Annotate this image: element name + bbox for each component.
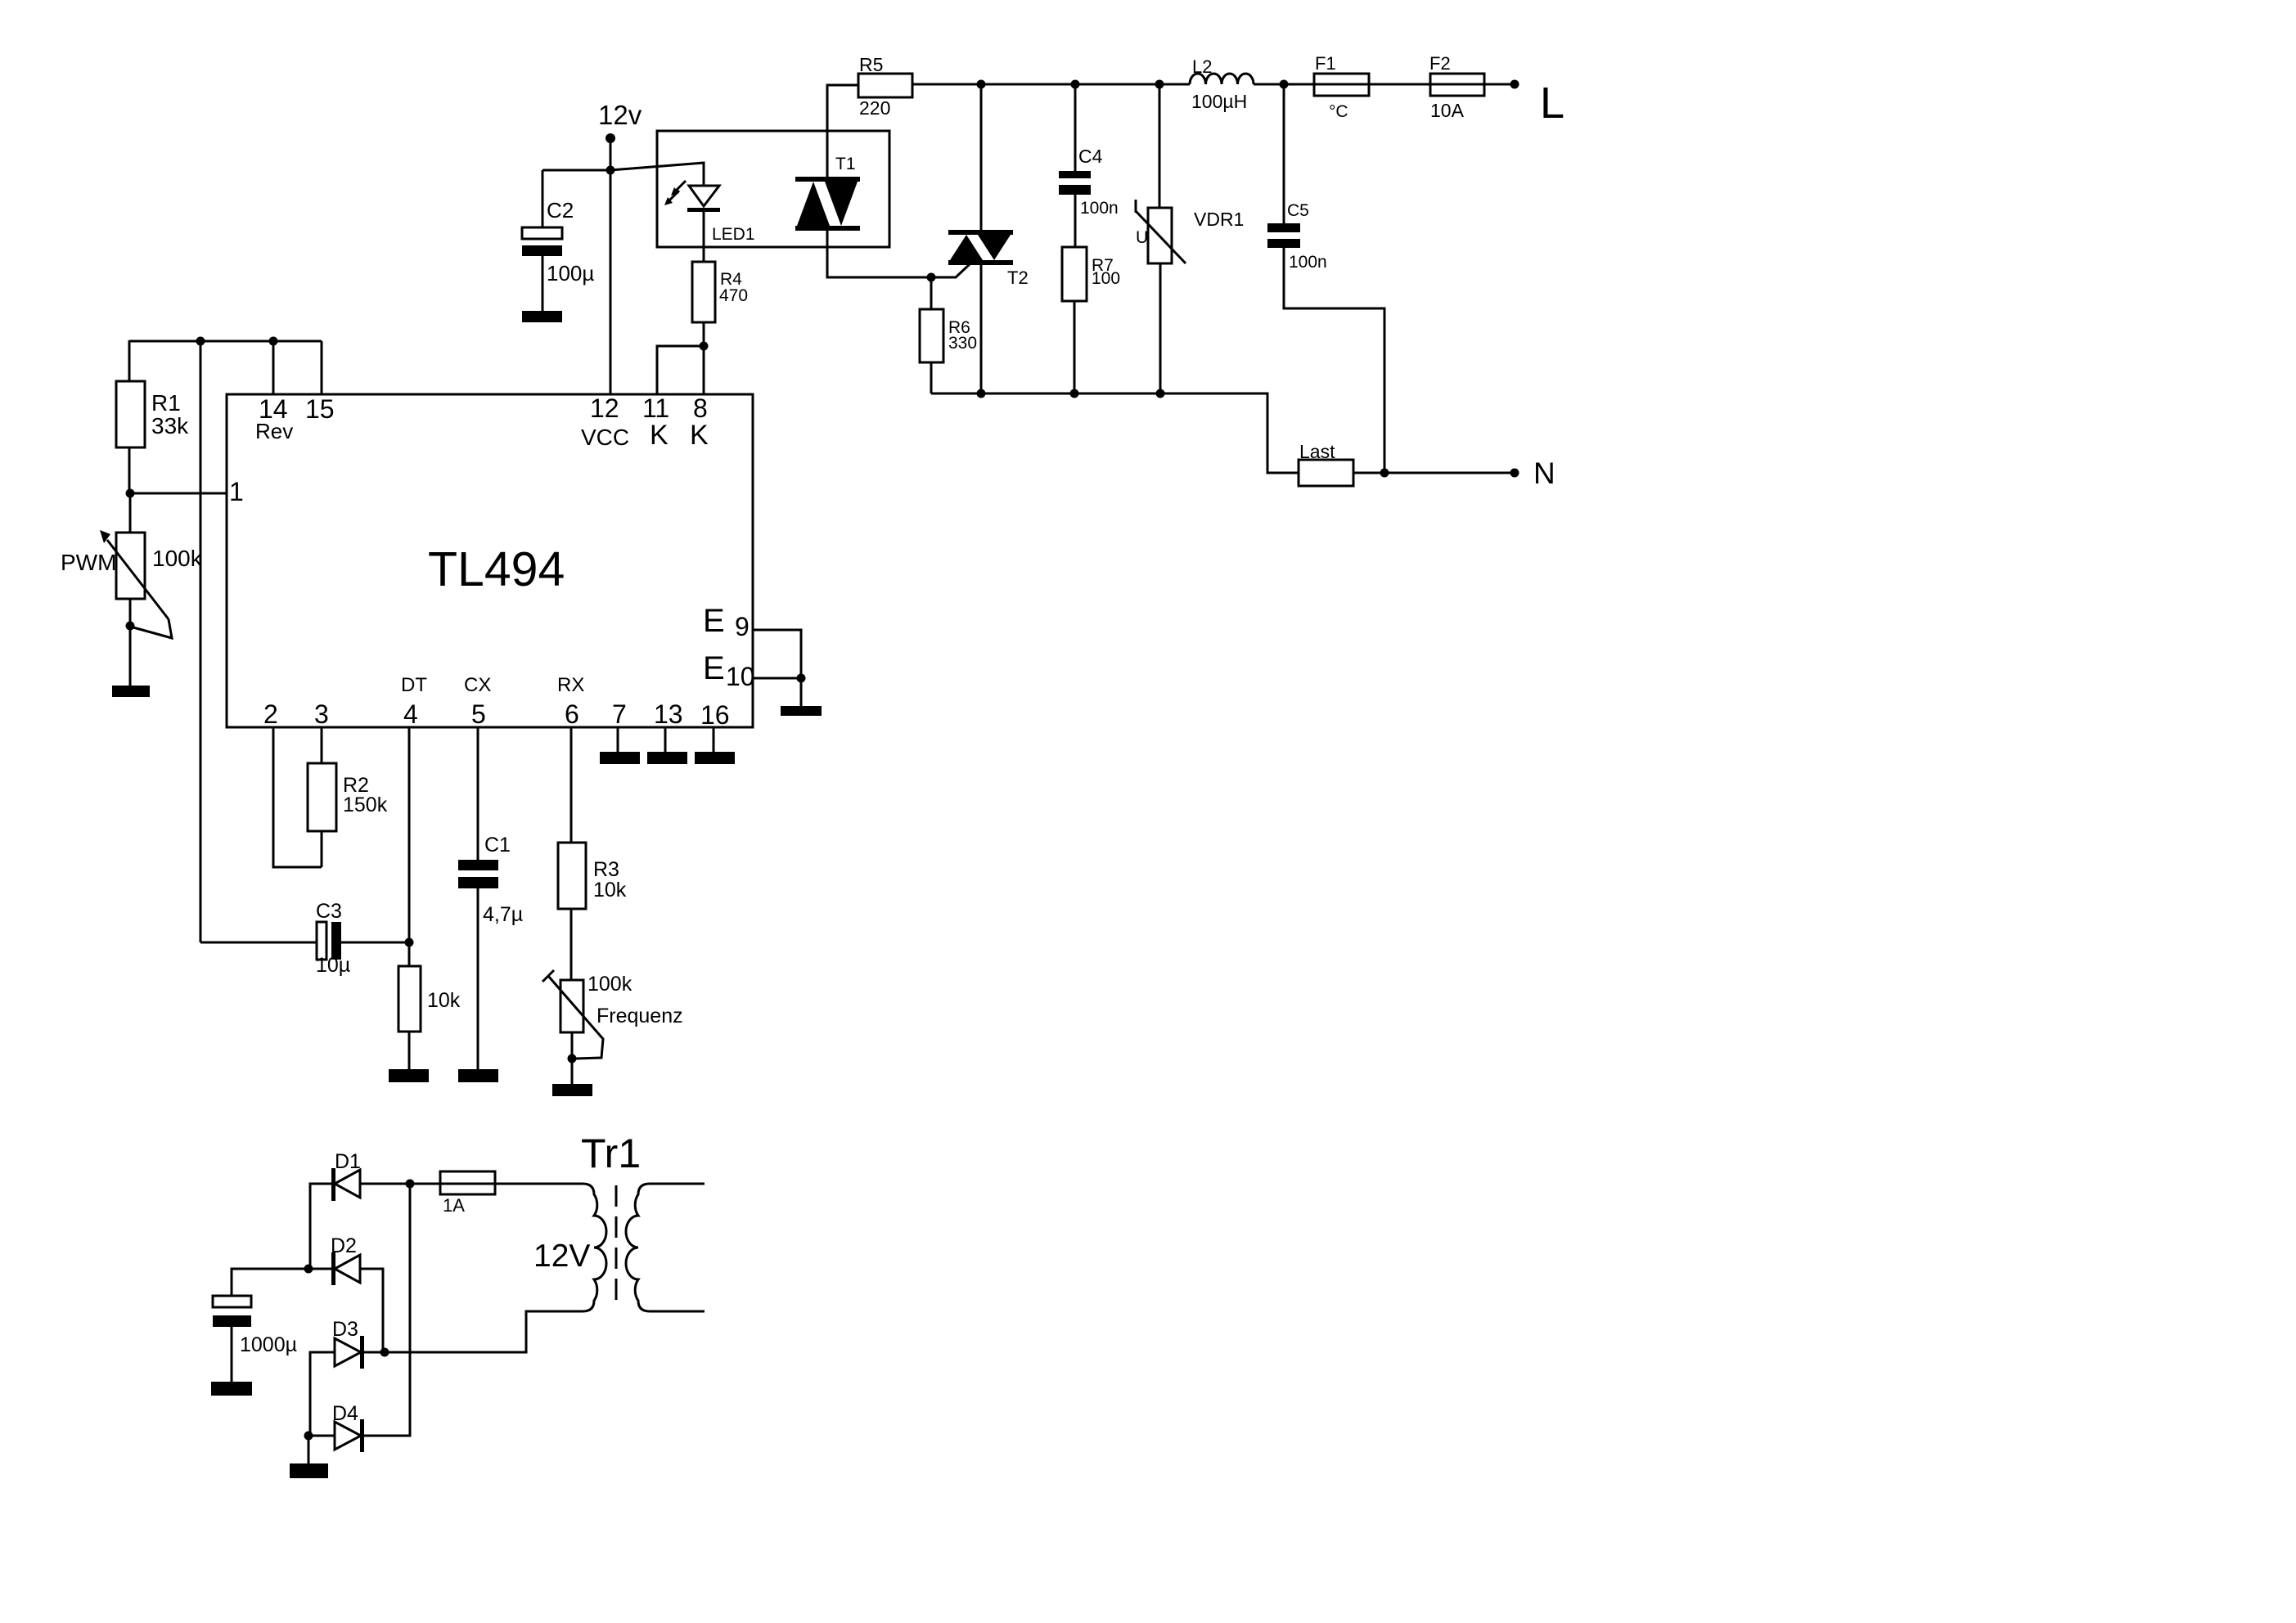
node pin4/C3 [405, 938, 414, 947]
svg-text:R3: R3 [593, 858, 619, 881]
svg-text:11: 11 [642, 393, 669, 423]
ground (emitters) [781, 706, 822, 716]
wire T2 bottom to rail [980, 265, 983, 393]
node T1/T2 gate/R6 [927, 273, 936, 282]
svg-text:C5: C5 [1287, 201, 1309, 220]
svg-text:10k: 10k [593, 879, 627, 901]
wire LED1 cathode to R4 [703, 212, 705, 262]
diode D4 [335, 1422, 361, 1450]
wire VDR1 bottom [1159, 263, 1162, 393]
wire F1 to F2 [1369, 83, 1430, 86]
wire pin 9 [753, 630, 801, 707]
wire Last to node [1353, 472, 1384, 474]
wire pot bottom to node [571, 1032, 574, 1059]
node rail/VDR1 bottom [1156, 389, 1165, 398]
svg-text:D4: D4 [332, 1402, 358, 1425]
wire R7 bottom [1074, 301, 1076, 393]
svg-text:220: 220 [859, 97, 890, 119]
capacitor C3 10u [317, 922, 326, 960]
svg-text:C2: C2 [547, 198, 574, 223]
node D4 anode [304, 1432, 313, 1441]
ground (PWM pot) [112, 686, 150, 697]
svg-text:E: E [703, 650, 725, 686]
wire top-left rail (node to pins 14/15) [129, 340, 322, 343]
wire D3 left down to D4 node [310, 1352, 335, 1436]
node pins 9/10 [797, 674, 806, 683]
svg-text:Frequenz: Frequenz [597, 1005, 683, 1027]
svg-text:VCC: VCC [581, 425, 629, 450]
svg-text:100µH: 100µH [1191, 91, 1247, 112]
svg-text:D2: D2 [331, 1234, 357, 1257]
wire pin 13 stub [664, 727, 667, 752]
node rail/VDR1 [1155, 80, 1164, 89]
ground (pin 4) [389, 1069, 429, 1082]
wire C5 bottom to N node [1284, 248, 1384, 473]
svg-text:10k: 10k [427, 989, 461, 1012]
wire 10k to ground [408, 1032, 411, 1071]
wire long vertical to C3 [200, 341, 202, 942]
svg-text:T2: T2 [1007, 268, 1029, 288]
wire C3 left [200, 942, 317, 944]
wire R1 bottom to node [128, 447, 131, 493]
wire C5 top [1283, 84, 1285, 223]
triac T2 [948, 230, 1013, 235]
diode D3 [335, 1338, 361, 1366]
capacitor C1 4,7u [458, 860, 498, 870]
wire bottom snubber rail [931, 393, 1299, 473]
svg-text:150k: 150k [343, 794, 388, 816]
LED1 light arrow 1 [675, 181, 686, 191]
capacitor C2 plate positive [522, 227, 562, 239]
wire C4 to R7 [1074, 195, 1077, 247]
wire D1 right to fuse node [360, 1183, 440, 1185]
wire top rail R5 to L2 [912, 83, 1190, 86]
svg-text:R1: R1 [151, 390, 181, 416]
svg-text:F2: F2 [1429, 53, 1451, 74]
node 12v branch [606, 166, 615, 175]
svg-text:VDR1: VDR1 [1194, 209, 1244, 230]
wire F2 to terminal L [1484, 83, 1515, 86]
capacitor C2 top wire [542, 170, 544, 227]
wire pin 5 to C1 [477, 727, 479, 860]
svg-text:100: 100 [1092, 269, 1120, 288]
resistor R2 150k [308, 763, 336, 831]
wire C2 to ground [542, 256, 544, 312]
svg-text:L2: L2 [1192, 56, 1212, 77]
svg-text:F1: F1 [1315, 53, 1336, 74]
node rail/T2 bottom [977, 389, 986, 398]
potentiometer PWM wiper arrow [107, 540, 169, 619]
wire pin 4 down [408, 727, 411, 966]
svg-text:Rev: Rev [255, 419, 293, 443]
wire pin 16 stub [713, 727, 715, 752]
svg-text:1A: 1A [443, 1195, 465, 1216]
wire branch to LED1 anode (slanted) [610, 163, 704, 186]
wire pin 15 [321, 341, 323, 394]
wire C3 right to pin4 node [341, 942, 409, 944]
svg-text:R5: R5 [859, 54, 883, 75]
resistor R4 470 [692, 262, 715, 322]
node rail/C4 [1071, 80, 1080, 89]
wire node to R6 [930, 277, 933, 309]
svg-text:1: 1 [229, 477, 244, 506]
resistor Last (load) [1299, 460, 1353, 486]
svg-text:15: 15 [305, 394, 335, 424]
svg-text:C1: C1 [484, 834, 511, 856]
capacitor C5 100n [1267, 223, 1300, 232]
svg-text:1000µ: 1000µ [240, 1333, 297, 1356]
wire node to PWM pot top [129, 493, 132, 533]
svg-text:RX: RX [557, 674, 584, 696]
svg-text:100n: 100n [1289, 253, 1327, 272]
wire node to D2 [308, 1268, 331, 1270]
wire Tr1 secondary bottom [650, 1311, 705, 1313]
node rail/T2 [977, 80, 986, 89]
node rail/R7 bottom [1070, 389, 1079, 398]
resistor R1 [116, 381, 145, 447]
diode D2 [331, 1252, 335, 1285]
varistor VDR1 [1148, 208, 1172, 263]
ground (D4) [290, 1463, 328, 1478]
wire R1 top [128, 340, 131, 381]
wire pin 10 [753, 677, 801, 680]
node pot bottom/wiper [126, 622, 135, 631]
svg-text:470: 470 [719, 286, 748, 305]
wire pin 2 loop [273, 727, 322, 867]
wire T2 gate [931, 264, 970, 277]
wire pin 6 to R3 [570, 727, 573, 843]
wire R3 to pot [570, 909, 573, 980]
potentiometer Frequenz 100k body [560, 980, 583, 1032]
svg-text:C3: C3 [316, 900, 342, 923]
fuse F2 10A [1430, 74, 1484, 96]
svg-text:100k: 100k [152, 546, 203, 571]
svg-text:T1: T1 [835, 155, 856, 173]
node freq pot [568, 1054, 577, 1063]
wire C4 top [1074, 84, 1077, 171]
wire pin 1 [130, 492, 227, 495]
svg-text:100k: 100k [588, 973, 633, 996]
svg-text:C4: C4 [1078, 146, 1103, 167]
wire L2 to F1 [1254, 83, 1314, 86]
resistor R5 220 [858, 74, 912, 97]
wire pin 14 [272, 341, 275, 394]
node terminal L [1510, 80, 1519, 89]
node rail/C5 [1280, 80, 1289, 89]
svg-text:10A: 10A [1430, 100, 1465, 121]
ground (pin 7) [600, 752, 640, 764]
svg-text:16: 16 [700, 700, 730, 730]
node 12v terminal [606, 133, 615, 143]
wire node to terminal N [1384, 472, 1515, 474]
wire T1 top from R5 [827, 85, 858, 177]
triac T1 [795, 177, 860, 182]
svg-text:Last: Last [1299, 441, 1335, 462]
svg-text:4,7µ: 4,7µ [483, 903, 523, 926]
fuse 1A [440, 1171, 495, 1194]
svg-text:3: 3 [314, 699, 329, 729]
wire jog to pin 11 [657, 346, 704, 394]
node terminal N [1510, 469, 1519, 478]
wire VDR1 top [1159, 84, 1161, 208]
svg-text:100µ: 100µ [547, 261, 594, 285]
wire node to ground [129, 626, 132, 687]
svg-text:6: 6 [565, 699, 579, 729]
svg-text:E: E [703, 603, 725, 639]
svg-text:330: 330 [948, 334, 977, 353]
wire node to ground [571, 1059, 574, 1086]
svg-text:12v: 12v [598, 100, 642, 130]
svg-text:D1: D1 [335, 1150, 361, 1173]
wire pin 3 to R2 [321, 727, 323, 763]
node D2 anode [304, 1265, 313, 1274]
LED1 light arrow 2 [669, 191, 679, 201]
capacitor C2 plate negative [522, 245, 562, 256]
ground (frequenz) [552, 1084, 592, 1096]
svg-text:N: N [1533, 456, 1555, 490]
wire R4 to pin 8 [703, 322, 705, 394]
capacitor 1000u [213, 1296, 251, 1307]
wire T1 bottom to gate node [827, 231, 931, 277]
svg-text:LED1: LED1 [712, 225, 755, 244]
svg-text:4: 4 [403, 699, 418, 729]
optocoupler box [657, 131, 889, 247]
svg-text:U: U [1136, 228, 1148, 247]
LED1 cathode bar [687, 208, 720, 212]
svg-text:K: K [650, 420, 669, 451]
node D1/fuse [406, 1180, 415, 1189]
resistor R6 330 [920, 309, 943, 362]
svg-text:100n: 100n [1080, 199, 1119, 218]
ground (1000u) [211, 1382, 252, 1396]
ground (C2) [522, 311, 562, 322]
svg-text:Tr1: Tr1 [581, 1131, 641, 1176]
svg-text:8: 8 [693, 393, 708, 423]
node junction R1/pot/pin1 [126, 489, 135, 498]
svg-text:12: 12 [590, 393, 619, 423]
node R4 / K pins [700, 342, 709, 351]
fuse F1 (thermal) [1314, 74, 1369, 96]
node D3/D2/Tr1 [380, 1348, 389, 1357]
node on top rail at x=245 [196, 337, 205, 346]
ground (pin 13) [647, 752, 687, 764]
resistor R7 100 [1062, 247, 1087, 301]
svg-text:K: K [690, 420, 709, 451]
wire R6 bottom [930, 362, 933, 393]
wire branch to C2 [542, 169, 610, 172]
wire T2 top [980, 84, 983, 230]
wire pot wiper loop to node [133, 619, 172, 638]
capacitor C4 100n [1059, 171, 1091, 178]
wire pin 7 stub [617, 727, 619, 752]
wire pot bottom to node [129, 599, 132, 626]
svg-text:7: 7 [612, 699, 627, 729]
svg-text:CX: CX [464, 674, 491, 696]
wire D1 left [310, 1184, 331, 1269]
svg-text:10: 10 [726, 662, 755, 691]
svg-text:D3: D3 [332, 1318, 358, 1341]
node on top rail at x=334 [269, 337, 278, 346]
LED1 triangle [689, 186, 719, 206]
wire fuse to Tr1 [495, 1183, 583, 1185]
resistor 10k (dead time) [398, 966, 421, 1032]
node Last/C5 [1380, 469, 1389, 478]
wire D4 right to vertical [364, 1184, 410, 1436]
wire R2 bottom [321, 831, 323, 867]
ground (pin 5) [458, 1069, 498, 1082]
svg-text:PWM: PWM [61, 550, 116, 575]
resistor R3 10k [558, 843, 586, 909]
transformer Tr1 primary winding [583, 1184, 606, 1311]
wire 1000u to ground [231, 1327, 233, 1383]
transformer Tr1 core [615, 1185, 618, 1310]
svg-text:9: 9 [735, 612, 750, 641]
svg-text:DT: DT [401, 674, 427, 696]
svg-text:10µ: 10µ [316, 954, 350, 977]
svg-text:TL494: TL494 [428, 542, 565, 596]
svg-text:13: 13 [654, 699, 683, 729]
wire D2 right down to D3 node [360, 1269, 383, 1352]
svg-text:33k: 33k [151, 413, 189, 438]
wire 12v down to VCC pin 12 [610, 137, 612, 394]
wire Tr1 secondary top [650, 1183, 705, 1185]
wire D4 node to ground [308, 1436, 310, 1465]
transformer Tr1 secondary winding [626, 1184, 650, 1311]
svg-text:12V: 12V [533, 1239, 590, 1274]
svg-text:L: L [1540, 79, 1564, 128]
op-amp ic U1 TL494 body [227, 394, 753, 727]
wire D3 right to node [364, 1351, 385, 1354]
wire node to Tr1 bottom [385, 1311, 583, 1352]
wire 1000u cap top [232, 1269, 308, 1296]
potentiometer PWM 100k body [116, 533, 145, 599]
svg-text:5: 5 [471, 699, 486, 729]
svg-text:2: 2 [263, 699, 278, 729]
inductor L2 100uH [1190, 74, 1254, 84]
potentiometer Frequenz wiper [542, 970, 554, 982]
wire node to D4 [308, 1435, 335, 1437]
wire C1 to ground [477, 888, 479, 1071]
ground (pin 16) [695, 752, 735, 764]
svg-text:°C: °C [1329, 102, 1348, 121]
diode D1 [331, 1168, 335, 1201]
